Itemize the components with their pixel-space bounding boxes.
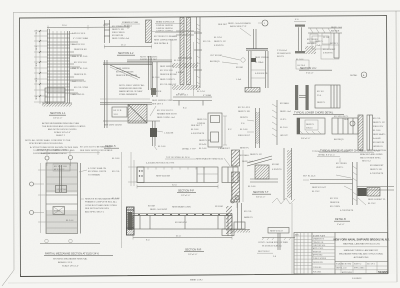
texts right of framing detail [157,110,177,119]
slanted dim ticks [39,30,41,97]
joist stripes lower [47,210,78,233]
detail: column strip section 2-2 [104,20,152,49]
detail: brace T-joint (top center-right) [197,22,269,97]
grid bubble top B [69,156,73,160]
left box [297,118,325,134]
beam elevation: section R-R [126,206,234,242]
detail B: brace at upper chord [303,150,394,212]
dim line below [137,186,218,188]
long vertical reference line right of plan [121,152,123,248]
sheet bottom edge [8,282,397,283]
I column flanges [295,25,305,27]
detail: beam-column moment conn (center y85-150) [197,113,232,147]
wall face lines [47,29,49,104]
marker: detail circle (right mid) [344,119,355,126]
detail: tall pier right of section T [272,148,295,204]
beam elevation: section P-P [128,152,238,189]
hatched beam stub at bottom [245,88,260,93]
detail: splice pair (right, y118-152) [297,116,358,141]
truss elevation bands (x168-200) [152,32,200,101]
left dimension chain [39,30,41,104]
hatched wall bar [146,20,152,43]
inner outline [312,36,329,49]
floor lines [47,34,84,93]
title: section U-U [299,67,332,75]
title block banner [334,238,390,260]
title: detail B [334,218,350,226]
beam left [310,179,353,181]
schedule table heading (top center-left) [121,21,140,28]
dim line [133,237,232,239]
title: partial basement plan [44,253,113,268]
plan: partial basement framing [30,151,122,248]
revision strip (left columns) [294,233,312,274]
detail: tall wall section (top-left) [34,25,130,107]
left end block [137,167,144,183]
base boot box [45,88,65,102]
right box w/ stiffeners [315,85,340,108]
left dim chain [130,152,132,186]
title: typical lower chord detail [293,112,344,115]
title block outer box [292,203,388,274]
main column [352,162,354,205]
extra annotation marks around detail B [312,163,347,193]
title block bottom grid [335,262,388,275]
sheet top edge [13,11,400,13]
marker: detail circle near top [218,20,268,26]
grid bubble left 1 [30,182,34,186]
sheet right edge [396,11,397,282]
detail: framing at EL 24-6 (with hatch square) [100,99,160,127]
title: section 1 (under wall section) [49,112,66,120]
leader texts right of detail 5 [191,125,212,150]
title: detail 5 [104,145,119,148]
vertical member right [333,33,335,58]
right end detail [227,214,229,237]
detail: column base (bottom-center) [230,203,254,233]
beam body [133,216,232,230]
joist stripes upper [47,164,78,193]
bottom of plan [40,243,100,245]
right bracket piece [222,167,238,183]
beam right [357,186,394,188]
dim line [104,46,152,48]
detail: hanger section (bottom-center small) [257,228,295,259]
top dimension line [47,26,130,29]
beam body [137,167,218,183]
detail: section U-U (top right) [294,19,343,69]
svg-text:SHEET 1 OF 2: SHEET 1 OF 2 [190,280,203,282]
note box (right of brace detail) [277,50,291,58]
title block mid cells [312,234,335,273]
detail: column base w/ bolt blotch [150,121,174,150]
web box below joint [265,51,267,88]
grid bubble right of beam P-P [231,186,235,203]
section annotations right side [72,33,89,96]
web below joint [248,51,250,88]
leader note right upper [88,167,107,176]
hatched strip left of column base [226,206,232,234]
title: section 2-2 [117,52,158,61]
detail: column with hatch (center, x196) [194,17,212,88]
top dim line [44,152,100,154]
detail: beam w/ hooks (mid right of center band) [150,95,212,117]
top horizontal hatched member [308,27,342,29]
svg-text:5-3-248-53: 5-3-248-53 [352,278,361,280]
detail: lower chord column section [295,85,340,110]
texts left of wall bars [152,35,178,93]
title: typical brace at lower chord [319,150,374,153]
additional plates and fittings [310,34,318,42]
texts above beam P-P [182,147,250,151]
stair well middle [56,186,67,193]
grid bubble left 2 [30,211,34,215]
detail: section T assembly [247,154,282,188]
detail: double hatched wall bars (center) [176,18,194,85]
schedule table heading 2 (top center) [155,21,184,33]
break line zigzag [272,198,295,204]
left channel detail [208,113,222,147]
plan grid rungs [47,170,78,228]
grade hatch at base [42,103,72,107]
dark gusset [358,188,367,196]
grid bubble top A [45,156,49,160]
leader lines to annotations [70,33,76,94]
general notes block [25,122,86,155]
note above plan [37,147,113,155]
detail: corner hatch detail with beam [127,60,177,97]
top text box in plan [53,164,70,171]
top flange with rivet row [133,213,232,215]
rivet ticks along top [148,167,204,170]
title: section R-R [184,249,204,257]
left dim chain [40,163,42,233]
title: section P-P [177,190,196,198]
grid bubble right of beam R-R [235,195,239,208]
small marks inside [59,165,61,192]
mid open zone line [46,194,78,196]
detail: sloped member framing (center-left band) [103,56,152,128]
detail: wall edge with hatch ticks (x277, y100-145) [272,100,292,145]
plan outline [46,163,78,234]
leader note right lower [85,198,119,214]
sheet left edge [13,13,16,271]
sheet corner cut bottom-left [2,270,14,286]
detail: hatched wall strip (bottom-center left) [232,150,254,202]
detail: riveted splice (center right y100-150) [238,107,260,148]
detail: right edge assembly (x355-398) [358,115,387,152]
small elev marks inside [52,31,66,102]
rotated dim labels [36,30,38,99]
left end dark cluster [127,207,135,235]
marker: detail A circle [350,72,367,78]
title: section T [252,191,271,199]
